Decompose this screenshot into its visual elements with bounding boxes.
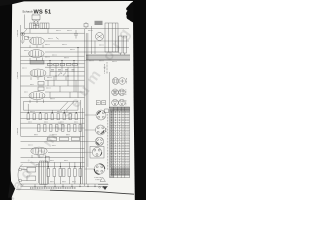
page bottom edge shadow <box>50 190 134 194</box>
table dense footer <box>111 168 130 176</box>
component K <box>84 22 88 29</box>
socket pin ticks below <box>95 178 103 180</box>
table header band <box>110 107 130 112</box>
schematic left frame wire <box>20 25 22 136</box>
tube V2 EBF11 <box>29 50 45 61</box>
svg-text:Schaub: Schaub <box>22 10 33 14</box>
tuning gang block <box>105 23 118 52</box>
title Schaub <box>22 10 33 14</box>
wire mid rows <box>45 66 85 68</box>
resistor bank row 2 <box>38 124 82 131</box>
filter capacitor cans <box>119 36 127 53</box>
wire h-bus rows upper <box>21 32 85 34</box>
pinout circle dial lamp <box>119 78 126 85</box>
chassis comb bar <box>86 55 130 59</box>
fuse F1 <box>27 176 36 181</box>
component hanger ticks bottom bus <box>34 184 96 187</box>
trimmer row above sockets <box>96 101 105 105</box>
tube V3 ECH11 triode <box>30 69 46 80</box>
loudspeaker LS with output transformer <box>25 14 41 29</box>
mains plug <box>18 165 27 186</box>
caption text row bottom <box>30 187 76 189</box>
resistor R21 <box>46 156 50 162</box>
socket diagram S4 ECL11 in square <box>90 146 104 158</box>
watermark radiomuseum.org <box>2 25 134 203</box>
pinout circle ECL11 <box>112 99 119 106</box>
capacitor pair row <box>51 70 75 71</box>
junction dots <box>28 47 79 167</box>
caption text left frame <box>17 30 19 135</box>
pinout circle EM11 <box>112 78 119 85</box>
vertical connector wires <box>28 29 80 184</box>
coupling box A1 <box>25 36 29 39</box>
pinout circle EBF11 <box>119 89 126 96</box>
coupling caps stack <box>38 81 44 90</box>
table first column text <box>110 110 114 177</box>
capacitor C <box>74 30 78 39</box>
label box ECH11 <box>30 61 44 64</box>
pinout circle ECH11 <box>112 89 119 96</box>
table cell entries (tiny print) <box>112 111 128 176</box>
electrolytic capacitor bank <box>47 169 82 177</box>
speaker plug symbol <box>98 177 108 188</box>
ground <box>21 41 25 43</box>
IF transformer T2 <box>40 23 49 29</box>
magic eye EM11 <box>96 33 104 41</box>
tube V1 ECH11 <box>30 37 45 48</box>
speaker connector arrow filled <box>103 186 108 190</box>
wire risers right <box>85 26 125 169</box>
socket diagram S5 AZ11 <box>94 164 104 174</box>
resistor R row A <box>48 63 78 66</box>
table caption vertical <box>107 114 109 170</box>
wire top bus <box>25 28 130 30</box>
switch contact <box>56 37 59 39</box>
scan blob top right <box>126 2 134 23</box>
tube pinout feed wire <box>108 72 110 108</box>
tube V4 EBF11 pentode <box>29 92 45 103</box>
wire resistor bus rows <box>21 112 85 114</box>
switch S1 <box>27 167 36 172</box>
potentiometer arrows <box>58 73 66 76</box>
antenna A <box>21 29 27 40</box>
power transformer TR <box>39 161 48 185</box>
vertical stub wires mid section <box>48 76 76 98</box>
valve data table <box>108 107 130 178</box>
component value labels (tiny print) <box>22 31 117 182</box>
wire <box>45 40 129 42</box>
coil L5 <box>95 21 103 25</box>
tube V5 ECL11 <box>31 147 47 158</box>
resistor bank row 1 <box>27 114 77 120</box>
socket diagram S1 ECH11 <box>96 109 108 120</box>
wire harness vertical bundle <box>81 29 88 186</box>
scan border top edge <box>0 0 146 6</box>
dial assembly box <box>24 102 79 111</box>
title WS 51 <box>34 9 52 15</box>
scan border left <box>0 0 12 200</box>
socket diagram S3 EM11 <box>95 137 104 146</box>
tube name labels column <box>125 78 128 106</box>
scan blob bottom left <box>8 180 15 198</box>
tube list heading (tiny print) <box>105 62 108 74</box>
IF transformer T1 <box>30 23 38 29</box>
wire lower rows <box>21 147 85 149</box>
socket diagram S2 EBF11 <box>96 125 107 135</box>
capacitor blocks row <box>48 137 80 141</box>
svg-text:WS 51: WS 51 <box>34 9 52 15</box>
pinout circle AZ11 <box>119 99 126 106</box>
page background <box>0 0 146 200</box>
scan border right column <box>133 0 146 200</box>
